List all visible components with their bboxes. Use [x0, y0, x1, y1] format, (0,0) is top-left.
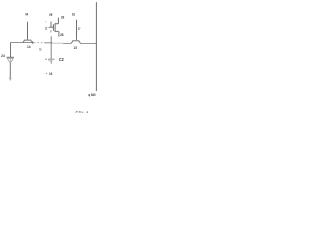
wire: horizontal node bus dashed middle — [34, 42, 45, 44]
wire: node down to capacitor — [50, 36, 52, 59]
junction dot on right rail — [96, 43, 98, 45]
svg-text:28: 28 — [60, 33, 63, 37]
arrowhead down — [9, 78, 12, 81]
svg-text:13: 13 — [45, 26, 47, 30]
wire: left drop from bus — [10, 43, 12, 58]
transistor T3 gate bar — [52, 24, 54, 31]
current source lead 17 vertical — [76, 20, 78, 40]
wire: right vertical rail — [95, 2, 97, 91]
transistor T3 channel bar — [54, 23, 56, 32]
transistor T3 drain lead — [55, 18, 58, 24]
diode D24 bar — [7, 56, 14, 58]
transistor T5 bar and legs — [71, 41, 80, 44]
svg-text:FIG. 4: FIG. 4 — [74, 110, 89, 114]
svg-text:26: 26 — [61, 15, 64, 19]
svg-text:14: 14 — [27, 45, 31, 49]
svg-text:24: 24 — [1, 54, 5, 58]
svg-text:VE: VE — [49, 13, 53, 17]
wire: horizontal node bus right part — [63, 43, 97, 45]
transistor T3 gate lead from VE — [49, 22, 54, 28]
capacitor C2 stub below — [50, 61, 52, 64]
wire: horizontal node bus left part — [11, 42, 34, 44]
tick left of label 16 — [46, 72, 47, 74]
svg-text:16: 16 — [72, 12, 75, 16]
tick near VE lead — [45, 21, 46, 23]
stub below gate — [50, 30, 52, 32]
transistor T1 bar and legs — [23, 40, 33, 44]
svg-text:17: 17 — [78, 27, 81, 31]
svg-text:16: 16 — [49, 72, 52, 76]
transistor T3 source lead — [55, 31, 59, 36]
svg-text:04: 04 — [25, 12, 28, 16]
capacitor C2 bottom plate — [48, 60, 52, 62]
capacitor C2 top plate — [45, 58, 55, 60]
svg-text:15: 15 — [74, 46, 77, 50]
svg-text:φ 840: φ 840 — [88, 93, 96, 97]
wire below diode — [9, 63, 11, 77]
wire: horizontal node bus faint segment — [52, 42, 63, 44]
diode D24 triangle — [7, 57, 13, 63]
svg-text:1b: 1b — [39, 48, 41, 52]
wire: horizontal node bus center — [44, 42, 52, 44]
transistor T1 vertical lead — [27, 22, 29, 40]
svg-text:C2: C2 — [59, 57, 64, 62]
